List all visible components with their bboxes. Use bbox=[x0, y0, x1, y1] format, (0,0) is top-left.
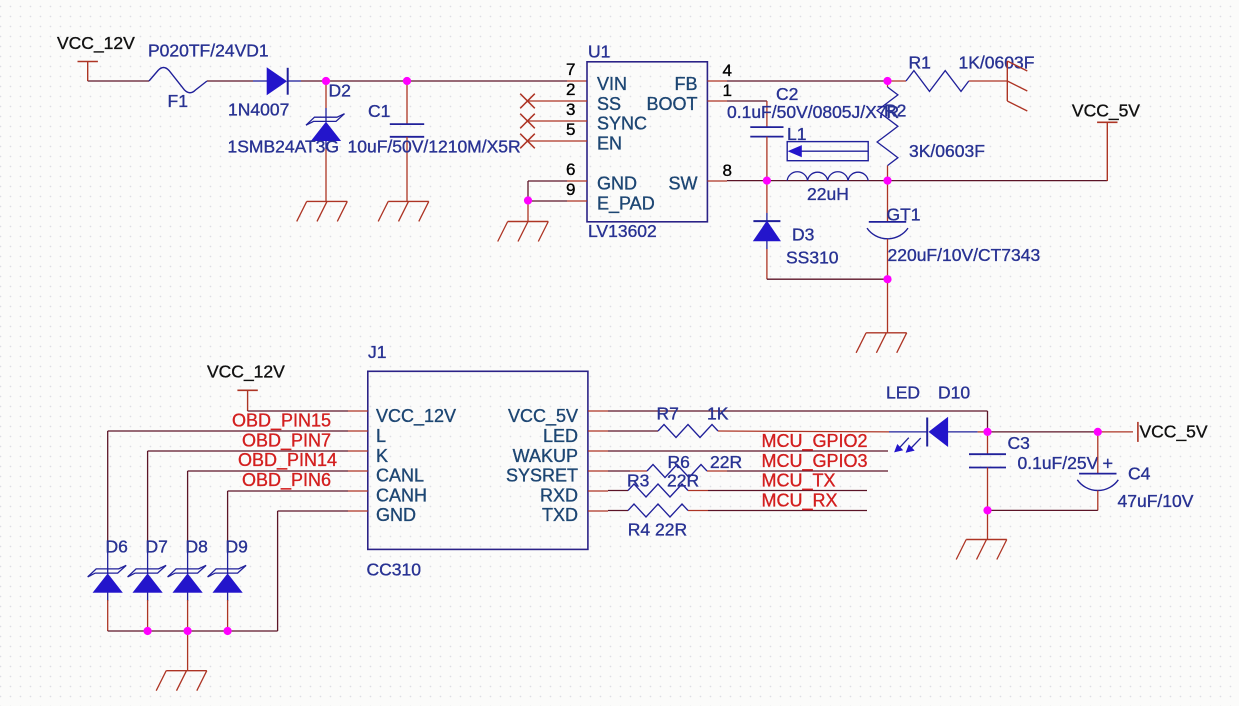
svg-text:SYSRET: SYSRET bbox=[506, 466, 578, 486]
svg-text:SS310: SS310 bbox=[786, 248, 839, 268]
svg-text:J1: J1 bbox=[368, 342, 386, 362]
svg-text:22R: 22R bbox=[667, 471, 699, 491]
svg-text:1K: 1K bbox=[707, 404, 729, 424]
svg-text:OBD_PIN7: OBD_PIN7 bbox=[242, 430, 331, 451]
svg-text:6: 6 bbox=[566, 160, 575, 179]
svg-text:LED: LED bbox=[886, 383, 920, 403]
svg-text:D10: D10 bbox=[938, 383, 970, 403]
svg-text:CANL: CANL bbox=[376, 466, 424, 486]
svg-text:2: 2 bbox=[566, 80, 575, 99]
svg-text:FB: FB bbox=[674, 74, 697, 94]
svg-text:SW: SW bbox=[669, 174, 698, 194]
svg-text:47uF/10V: 47uF/10V bbox=[1118, 491, 1194, 511]
svg-text:E_PAD: E_PAD bbox=[597, 193, 655, 214]
svg-text:SS: SS bbox=[597, 94, 621, 114]
svg-text:D6: D6 bbox=[106, 537, 128, 557]
svg-text:EN: EN bbox=[597, 133, 622, 153]
svg-text:10uF/50V/1210M/X5R: 10uF/50V/1210M/X5R bbox=[348, 137, 521, 157]
svg-text:OBD_PIN15: OBD_PIN15 bbox=[232, 411, 331, 432]
svg-text:K: K bbox=[376, 446, 388, 466]
svg-text:7: 7 bbox=[566, 60, 575, 79]
svg-text:220uF/10V/CT7343: 220uF/10V/CT7343 bbox=[888, 245, 1041, 265]
svg-text:R4 22R: R4 22R bbox=[628, 520, 687, 540]
svg-text:VCC_12V: VCC_12V bbox=[57, 33, 135, 54]
svg-text:R7: R7 bbox=[657, 404, 679, 424]
svg-text:P020TF/24VD1: P020TF/24VD1 bbox=[148, 41, 269, 61]
svg-text:MCU_GPIO3: MCU_GPIO3 bbox=[762, 451, 868, 472]
svg-text:D9: D9 bbox=[226, 537, 248, 557]
svg-text:D8: D8 bbox=[186, 537, 208, 557]
svg-text:BOOT: BOOT bbox=[646, 94, 697, 114]
svg-text:MCU_GPIO2: MCU_GPIO2 bbox=[762, 431, 868, 452]
svg-text:CC310: CC310 bbox=[367, 560, 422, 580]
svg-text:GND: GND bbox=[597, 174, 637, 194]
svg-text:OBD_PIN14: OBD_PIN14 bbox=[238, 450, 337, 471]
svg-text:R3: R3 bbox=[627, 471, 649, 491]
svg-text:3K/0603F: 3K/0603F bbox=[909, 141, 985, 161]
svg-text:WAKUP: WAKUP bbox=[513, 446, 578, 466]
svg-text:1: 1 bbox=[723, 81, 732, 100]
svg-text:5: 5 bbox=[566, 120, 575, 139]
svg-text:VCC_5V: VCC_5V bbox=[508, 406, 578, 427]
svg-text:LED: LED bbox=[543, 426, 578, 446]
svg-text:22R: 22R bbox=[710, 452, 742, 472]
svg-text:D7: D7 bbox=[146, 537, 168, 557]
svg-text:C2: C2 bbox=[776, 84, 798, 104]
svg-text:0.1uF/50V/0805J/X7R: 0.1uF/50V/0805J/X7R bbox=[727, 102, 899, 122]
svg-text:9: 9 bbox=[566, 180, 575, 199]
svg-text:LV13602: LV13602 bbox=[588, 221, 657, 241]
svg-text:8: 8 bbox=[723, 161, 732, 180]
svg-text:GND: GND bbox=[376, 505, 416, 525]
svg-text:VCC_12V: VCC_12V bbox=[376, 406, 456, 427]
svg-text:F1: F1 bbox=[168, 91, 188, 111]
svg-text:VCC_5V: VCC_5V bbox=[1072, 101, 1140, 122]
svg-text:D2: D2 bbox=[329, 81, 351, 101]
svg-text:SYNC: SYNC bbox=[597, 114, 647, 134]
svg-text:C3: C3 bbox=[1008, 433, 1030, 453]
svg-text:MCU_TX: MCU_TX bbox=[762, 471, 836, 492]
svg-text:C4: C4 bbox=[1128, 464, 1151, 484]
svg-text:VIN: VIN bbox=[597, 74, 627, 94]
svg-text:4: 4 bbox=[723, 61, 732, 80]
svg-text:U1: U1 bbox=[588, 42, 610, 62]
svg-text:D3: D3 bbox=[792, 225, 814, 245]
svg-text:3: 3 bbox=[566, 100, 575, 119]
svg-text:OBD_PIN6: OBD_PIN6 bbox=[242, 470, 331, 491]
svg-text:0.1uF/25V: 0.1uF/25V bbox=[1018, 453, 1099, 473]
svg-text:L1: L1 bbox=[787, 124, 806, 144]
svg-text:MCU_RX: MCU_RX bbox=[762, 490, 838, 511]
svg-text:RXD: RXD bbox=[540, 485, 578, 505]
svg-text:CANH: CANH bbox=[376, 485, 427, 505]
svg-text:VCC_5V: VCC_5V bbox=[1140, 422, 1208, 443]
svg-text:1N4007: 1N4007 bbox=[228, 100, 289, 120]
svg-text:R6: R6 bbox=[668, 452, 690, 472]
svg-text:GT1: GT1 bbox=[887, 205, 921, 225]
svg-text:22uH: 22uH bbox=[807, 184, 849, 204]
svg-text:1SMB24AT3G: 1SMB24AT3G bbox=[228, 137, 340, 157]
svg-text:+: + bbox=[1103, 454, 1114, 474]
svg-text:VCC_12V: VCC_12V bbox=[207, 362, 285, 383]
svg-text:R1: R1 bbox=[909, 53, 931, 73]
svg-text:L: L bbox=[376, 426, 386, 446]
svg-text:C1: C1 bbox=[368, 101, 390, 121]
svg-text:TXD: TXD bbox=[542, 505, 578, 525]
